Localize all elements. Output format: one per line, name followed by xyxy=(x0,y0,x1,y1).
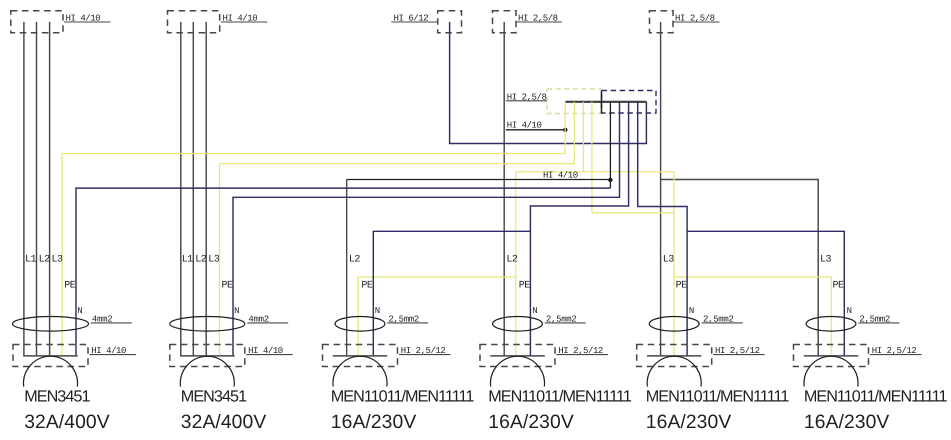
svg-text:MEN11011/MEN11111: MEN11011/MEN11111 xyxy=(331,388,475,406)
wire N branch to outlet P3 xyxy=(373,231,530,356)
wire L2 feed from X1 to outlet P1 xyxy=(36,22,38,356)
outlet P6 socket arc xyxy=(804,356,858,386)
svg-text:HI 4/10: HI 4/10 xyxy=(543,171,578,181)
wire L3 feed from X2 to outlet P2 xyxy=(205,22,207,356)
label HI 4/10 (X2) xyxy=(221,14,267,24)
wire PE circuit 2: bus riser, run to outlet P2 xyxy=(220,102,575,356)
svg-text:16A/230V: 16A/230V xyxy=(646,412,732,433)
outlet P5 phase labels xyxy=(663,254,675,265)
outlet P5 terminal line xyxy=(647,355,702,357)
outlet P2 conductor size label 4mm2 xyxy=(247,314,288,324)
svg-text:PE: PE xyxy=(64,280,76,291)
outlet P4 terminal line xyxy=(490,355,545,357)
svg-text:N: N xyxy=(847,306,852,316)
wire PE circuit 3: bus riser to PE rail xyxy=(582,102,584,172)
wire L2 feed from X4 to outlet P4 xyxy=(503,22,505,356)
wire N circuit 4: bus riser, run to outlet P5 xyxy=(638,102,687,356)
svg-text:32A/400V: 32A/400V xyxy=(181,412,267,433)
outlet P6 conductor size label 2,5mm2 xyxy=(858,314,899,324)
svg-text:N: N xyxy=(77,306,82,316)
outlet P4 cable ring (ellipse) xyxy=(493,317,543,332)
outlet P1 label HI 4/10 xyxy=(90,346,137,356)
outlet P4 mounting box (dashed) xyxy=(480,345,555,367)
svg-text:L3: L3 xyxy=(820,254,832,265)
svg-text:L2: L2 xyxy=(195,254,207,265)
outlet P5 socket arc xyxy=(647,356,701,386)
wire L1 feed from X2 to outlet P2 xyxy=(180,22,182,356)
svg-text:32A/400V: 32A/400V xyxy=(24,412,110,433)
cable marker (navy dashed box) xyxy=(602,91,657,114)
outlet P3 phase labels xyxy=(349,254,361,265)
svg-text:16A/230V: 16A/230V xyxy=(488,412,574,433)
outlet P1 conductor size label 4mm2 xyxy=(91,314,132,324)
svg-text:MEN11011/MEN11111: MEN11011/MEN11111 xyxy=(488,388,632,406)
outlet P3 conductor size label 2,5mm2 xyxy=(387,314,428,324)
connector X2 (dashed box) HI 4/10 xyxy=(168,11,220,33)
wire L3 feed from X5 to outlet P5 xyxy=(660,22,662,356)
svg-text:N: N xyxy=(375,306,380,316)
svg-text:PE: PE xyxy=(519,280,531,291)
svg-text:L3: L3 xyxy=(52,254,64,265)
outlet P6 mounting box (dashed) xyxy=(794,345,869,367)
svg-text:L2: L2 xyxy=(39,254,51,265)
svg-text:L3: L3 xyxy=(663,254,675,265)
outlet P5 cable ring (ellipse) xyxy=(649,317,699,332)
svg-text:L2: L2 xyxy=(506,254,518,265)
wire L3 feed from X1 to outlet P1 xyxy=(49,22,51,356)
svg-text:HI 4/10: HI 4/10 xyxy=(507,121,542,131)
outlet P1 cable ring (ellipse) xyxy=(13,317,89,332)
connector X4 (dashed box) HI 2,5/8 xyxy=(493,11,517,33)
outlet P1 socket arc xyxy=(24,356,78,386)
outlet P1 mounting box (dashed) xyxy=(13,345,88,367)
outlet P5 label HI 2,5/12 xyxy=(713,346,765,356)
outlet P2 label HI 4/10 xyxy=(246,346,292,356)
outlet P2 terminal line xyxy=(180,355,235,357)
svg-text:MEN3451: MEN3451 xyxy=(181,388,247,406)
wire N circuit 2: bus riser, run to outlet P2 xyxy=(233,102,620,356)
svg-text:L3: L3 xyxy=(208,254,220,265)
riser from bus to node at y188 xyxy=(609,102,611,188)
outlet P4 phase labels xyxy=(506,254,518,265)
wire PE branch to outlet P3 xyxy=(358,277,516,356)
outlet P3 socket arc xyxy=(333,356,387,386)
svg-text:L1: L1 xyxy=(25,254,37,265)
outlet P2 socket arc xyxy=(180,356,234,386)
wire PE riser to outlet P5 xyxy=(673,172,675,356)
outlet P6 label HI 2,5/12 xyxy=(870,346,922,356)
svg-text:16A/230V: 16A/230V xyxy=(804,412,890,433)
svg-text:N: N xyxy=(689,306,694,316)
outlet P1 phase labels xyxy=(25,254,63,265)
svg-text:PE: PE xyxy=(676,280,688,291)
wire PE rail y172 between outlets P4 and P5 xyxy=(516,171,674,173)
wire N circuit 1: run to outlet P1 xyxy=(76,188,610,356)
wire L3 branch from X5 feed to outlet P6 xyxy=(661,180,819,356)
label HI 2,5/8 (cable marker) xyxy=(506,93,547,103)
svg-text:PE: PE xyxy=(833,280,845,291)
outlet P3 terminal line xyxy=(333,355,388,357)
outlet P4 label HI 2,5/12 xyxy=(557,346,609,356)
outlet P2 mounting box (dashed) xyxy=(170,345,245,367)
outlet P4 conductor size label 2,5mm2 xyxy=(545,314,586,324)
svg-text:PE: PE xyxy=(222,280,234,291)
outlet P3 label HI 2,5/12 xyxy=(399,346,451,356)
outlet P2 phase labels xyxy=(182,254,220,265)
wire L2 run to outlet P3 (labelled HI 4/10) xyxy=(347,180,611,356)
svg-text:L1: L1 xyxy=(182,254,194,265)
label HI 4/10 with leader dot on PE riser xyxy=(506,121,566,131)
outlet P1 terminal line xyxy=(23,355,78,357)
connector X1 (dashed box) HI 4/10 xyxy=(11,11,63,33)
outlet P6 terminal line xyxy=(804,355,859,357)
junction dot on PE riser of cable HI 4/10 xyxy=(563,128,567,132)
wire L2 feed from X2 to outlet P2 xyxy=(192,22,194,356)
outlet P4 socket arc xyxy=(491,356,545,386)
junction dot at L2/N riser xyxy=(608,178,612,182)
cable marker left edge (solid) xyxy=(601,91,603,114)
label HI 2,5/8 (X4) xyxy=(517,14,563,24)
svg-text:L2: L2 xyxy=(349,254,361,265)
svg-text:N: N xyxy=(234,306,239,316)
outlet P6 cable ring (ellipse) xyxy=(806,317,856,332)
outlet P3 mounting box (dashed) xyxy=(323,345,398,367)
wire L1 feed from X1 to outlet P1 xyxy=(23,22,25,356)
connector X3 (dashed box) HI 6/12 xyxy=(438,11,462,33)
svg-text:N: N xyxy=(532,306,537,316)
junction bus bar xyxy=(565,101,646,103)
svg-text:PE: PE xyxy=(361,280,373,291)
svg-text:MEN3451: MEN3451 xyxy=(24,388,90,406)
outlet P6 phase labels xyxy=(820,254,832,265)
connector X5 (dashed box) HI 2,5/8 xyxy=(650,11,674,33)
wire PE circuit 1: bus riser, run to outlet P1 xyxy=(62,102,565,356)
cable marker (green dashed box) HI 2,5/8 xyxy=(547,89,602,114)
wire PE riser to outlet P4 xyxy=(515,172,517,356)
outlet P3 cable ring (ellipse) xyxy=(335,317,385,332)
wire N circuit 3: bus riser, run to outlet P4 xyxy=(530,102,628,356)
label HI 2,5/8 (X5) xyxy=(674,14,720,24)
wire N branch to outlet P6 xyxy=(687,231,844,356)
svg-text:16A/230V: 16A/230V xyxy=(331,412,417,433)
outlet P5 mounting box (dashed) xyxy=(637,345,712,367)
wire N feed from X3 (HI 6/12) to junction bus xyxy=(450,22,647,144)
label HI 6/12 (X3) xyxy=(391,14,437,24)
wire PE branch to outlet P6 xyxy=(674,277,831,356)
outlet P2 cable ring (ellipse) xyxy=(170,317,245,332)
svg-text:MEN11011/MEN11111: MEN11011/MEN11111 xyxy=(646,388,790,406)
outlet P5 conductor size label 2,5mm2 xyxy=(702,314,743,324)
label HI 4/10 (X1) xyxy=(64,14,111,24)
svg-text:MEN11011/MEN11111: MEN11011/MEN11111 xyxy=(804,388,948,406)
wire PE circuit 4: bus riser with jog to outlet P5 riser xyxy=(592,102,674,213)
